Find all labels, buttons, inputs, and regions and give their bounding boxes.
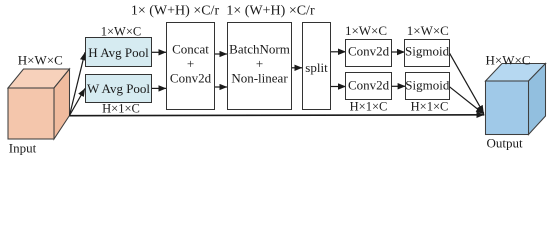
svg-text:Output: Output [487, 135, 524, 150]
svg-text:Non-linear: Non-linear [231, 71, 288, 86]
input cube top face [8, 69, 70, 88]
wire Concat to BatchNorm bottom [215, 86, 227, 88]
svg-text:+: + [187, 56, 194, 71]
svg-text:1×W×C: 1×W×C [407, 23, 449, 38]
svg-text:1×W×C: 1×W×C [101, 25, 142, 39]
wire H Avg Pool to Concat [152, 51, 166, 53]
wire Concat to BatchNorm top [215, 53, 227, 55]
wire Conv2d to Sigmoid top [391, 51, 405, 53]
wire Sigmoid top to output [450, 53, 484, 113]
wire input corner to H Avg Pool [70, 52, 86, 115]
BatchNorm + Non-linear box [228, 23, 292, 110]
svg-text:Conv2d: Conv2d [170, 71, 212, 86]
svg-text:Conv2d: Conv2d [348, 78, 390, 93]
svg-text:Input: Input [9, 141, 37, 156]
svg-text:+: + [256, 56, 263, 71]
split box [303, 23, 331, 110]
Concat + Conv2d box [167, 23, 215, 110]
wire split to Conv2d bottom [331, 86, 346, 88]
wire BatchNorm to split [292, 67, 302, 69]
svg-text:H×W×C: H×W×C [486, 52, 531, 67]
svg-text:Sigmoid: Sigmoid [405, 44, 450, 59]
input cube right face [54, 69, 70, 139]
svg-text:1× (W+H) ×C/r: 1× (W+H) ×C/r [131, 4, 220, 19]
svg-text:1×W×C: 1×W×C [345, 23, 387, 38]
wire input corner to W Avg Pool [70, 88, 86, 115]
wire Conv2d to Sigmoid bottom [391, 85, 405, 87]
svg-text:BatchNorm: BatchNorm [229, 42, 290, 57]
svg-text:H Avg Pool: H Avg Pool [88, 45, 149, 60]
output cube right face [529, 64, 546, 135]
svg-text:W Avg Pool: W Avg Pool [87, 81, 150, 96]
Sigmoid top box [405, 40, 450, 67]
svg-text:H×1×C: H×1×C [350, 100, 388, 114]
W Avg Pool box [86, 75, 152, 103]
wire Sigmoid bottom to output [449, 87, 483, 114]
svg-text:H×W×C: H×W×C [18, 52, 63, 67]
Conv2d bottom box [346, 73, 392, 100]
svg-text:Sigmoid: Sigmoid [405, 78, 450, 93]
wire W Avg Pool to Concat [152, 87, 166, 89]
output cube front face [486, 81, 529, 135]
wire split to Conv2d top [331, 51, 346, 53]
svg-text:1× (W+H) ×C/r: 1× (W+H) ×C/r [226, 4, 315, 19]
Sigmoid bottom box [406, 73, 450, 100]
output cube top face [486, 64, 546, 82]
svg-text:Conv2d: Conv2d [348, 44, 390, 59]
svg-text:H×1×C: H×1×C [102, 101, 140, 115]
H Avg Pool box [86, 38, 152, 67]
Conv2d top box [346, 40, 392, 67]
svg-text:H×1×C: H×1×C [411, 100, 449, 114]
svg-text:split: split [305, 60, 328, 75]
input cube front face [8, 88, 54, 139]
svg-text:Concat: Concat [172, 42, 209, 57]
wire residual line to output [70, 114, 485, 117]
